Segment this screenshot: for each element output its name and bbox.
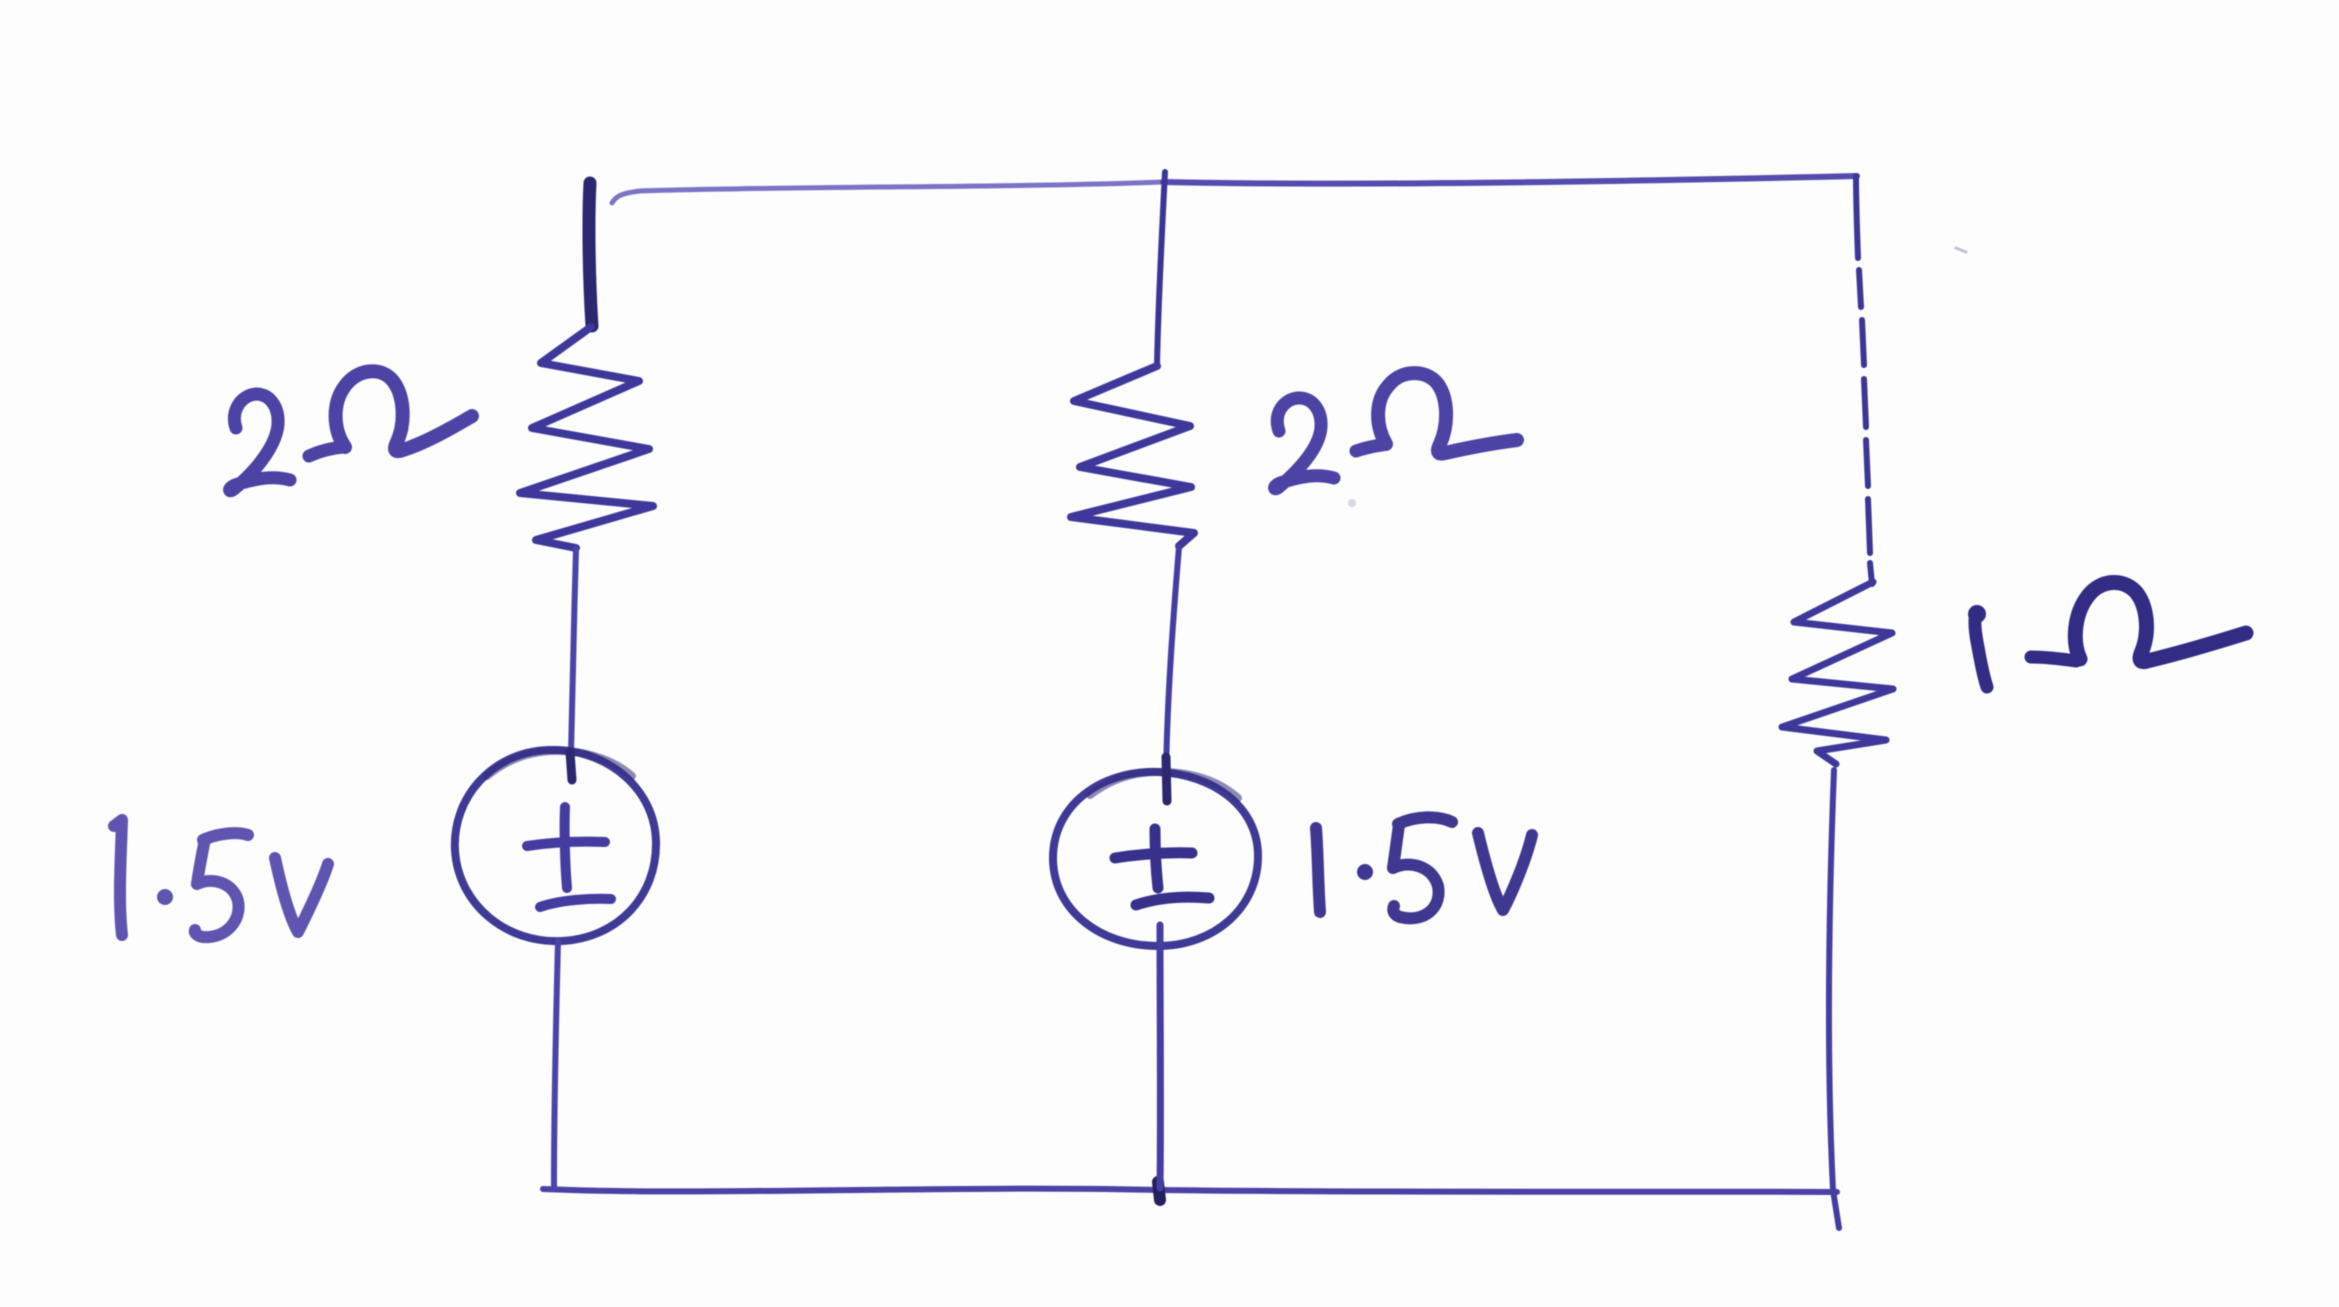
source V1 1.5V (left battery circle with ±) [455, 750, 656, 941]
wire stub above R1 (left branch top lead) [589, 183, 592, 326]
junction (middle branch meets bottom wire) [1158, 1182, 1160, 1200]
resistor R1 2Ω (left branch zigzag) [520, 327, 653, 548]
wire R2 bottom lead to V2 [1166, 547, 1179, 777]
wire bottom (node joining all branch bottoms) [543, 1189, 1837, 1192]
wire V2 bottom lead [1157, 925, 1164, 1188]
source V2 1.5V (middle battery circle with ±) [1053, 757, 1258, 946]
stray dot under middle label [1348, 499, 1356, 507]
label 1Ω for R3 [1968, 582, 2246, 687]
label 1.5V for V1 [114, 820, 328, 937]
label 1.5V for V2 [1316, 817, 1532, 918]
label 2Ω for R2 [1275, 373, 1517, 489]
resistor R3 1Ω (right branch zigzag) [1782, 582, 1893, 764]
resistor R2 2Ω (middle branch zigzag) [1071, 366, 1194, 546]
wire R3 bottom lead [1829, 770, 1839, 1228]
wire V1 bottom lead [554, 941, 558, 1186]
label 2Ω for R1 [230, 371, 472, 490]
wire top lead of middle branch [1157, 172, 1165, 366]
wire top (node between tops of all three branches) [612, 176, 1857, 203]
wire R1 bottom lead to V1 [571, 549, 576, 753]
wire top lead of right branch (dash-dot drawn) [1856, 176, 1872, 584]
stray mark near right branch [1956, 248, 1966, 252]
